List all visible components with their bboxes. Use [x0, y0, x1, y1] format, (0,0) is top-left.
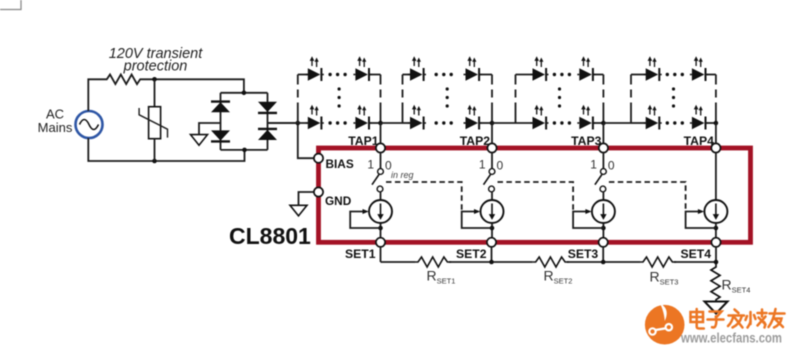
LED string 2 top first diode	[408, 56, 426, 81]
pin TAP1	[376, 143, 385, 152]
wire: bridge minus to ground	[199, 123, 221, 135]
pin TAP4	[711, 143, 720, 152]
LED string 3 top first diode	[531, 56, 549, 81]
LED string 2 top second diode	[464, 56, 482, 81]
LED string 3 top second diode	[577, 56, 595, 81]
LED string 4 bottom second diode	[690, 105, 708, 130]
wire: TAP1 to switch	[380, 153, 382, 169]
feedback loop 4	[686, 212, 716, 229]
svg-text:0: 0	[608, 159, 615, 173]
wire: segment 4 bottom rail lead-in	[631, 122, 647, 124]
AC source V1	[76, 111, 103, 138]
diode D1 (left top)	[211, 100, 230, 102]
svg-text:1: 1	[479, 158, 486, 172]
wire: set rail segment 4	[567, 261, 603, 263]
current source I3	[592, 200, 615, 223]
diode D3 (right top)	[258, 102, 277, 112]
watermark text: shao	[746, 310, 767, 328]
LED string 4 top first diode	[644, 56, 662, 81]
watermark text: zi	[708, 312, 724, 328]
svg-text:www.elecfans.com: www.elecfans.com	[680, 331, 782, 346]
feedback loop 2	[462, 212, 492, 229]
ellipsis dots vertical segment 2	[446, 87, 449, 107]
resistor R_SET3	[640, 257, 676, 267]
wire: TAP2 to switch	[491, 153, 493, 169]
LED string 2 bottom second diode	[464, 105, 482, 130]
dashed control link 3-4	[609, 182, 686, 210]
pin SET3	[599, 238, 608, 247]
wire: set rail segment 3	[492, 261, 533, 263]
wire: current source 1 to SET1	[380, 223, 382, 238]
LED string 1 bottom second diode	[353, 105, 371, 130]
ellipsis dots vertical segment 4	[672, 87, 675, 107]
LED string 4 top second diode	[690, 56, 708, 81]
ellipsis dots top row segment 2	[435, 73, 453, 76]
wire: link from TAP1 column to segment 2	[381, 122, 403, 124]
bridge rectifier BR1	[211, 91, 277, 153]
node: set rail junction x=716.0	[714, 260, 719, 265]
wire: segment 4 bottom rail end	[706, 122, 716, 124]
svg-text:SET1: SET1	[345, 247, 376, 261]
wire: switch to current source 1	[380, 192, 382, 200]
wire: GND lead	[299, 192, 315, 205]
wire: current source 3 to SET3	[602, 223, 604, 238]
svg-text:SET4: SET4	[681, 247, 712, 261]
wire: segment 3 top rail end	[593, 74, 603, 76]
wire: AC top rail	[88, 79, 104, 111]
watermark text: fa	[728, 310, 744, 328]
svg-text:1: 1	[367, 158, 374, 172]
LED string 1 bottom first diode	[306, 105, 324, 130]
node: segment 3 tap junction	[601, 121, 606, 126]
varistor RV1	[139, 79, 167, 161]
ellipsis dots vertical segment 1	[338, 87, 341, 107]
wire: link from TAP3 column to segment 4	[603, 122, 631, 124]
wire: segment 3 riser (dashed)	[515, 75, 517, 124]
node: feedback junction 2	[490, 226, 495, 231]
wire: bridge output to LED string	[268, 122, 301, 124]
pin SET4	[711, 238, 720, 247]
switch S2	[484, 169, 495, 192]
svg-text:CL8801: CL8801	[229, 223, 311, 249]
wire: segment 2 tap drop (dashed)	[491, 75, 493, 124]
node: varistor tap	[152, 77, 157, 82]
wire: switch to current source 2	[491, 192, 493, 200]
wire: current source 4 to SET4	[715, 223, 717, 238]
ellipsis dots bottom row segment 4	[666, 121, 684, 124]
wire: segment 2 bottom rail lead-in	[403, 122, 412, 124]
ellipsis dots top row segment 1	[328, 73, 346, 76]
wire: SET1 pin drop	[380, 247, 382, 262]
node: varistor bottom	[152, 159, 157, 164]
wire: BIAS feed	[298, 123, 314, 158]
current source I1	[369, 200, 392, 223]
pin TAP3	[599, 143, 608, 152]
pin SET2	[487, 238, 496, 247]
svg-text:protection: protection	[123, 59, 188, 75]
wire: TAP4 pin drop	[715, 123, 717, 143]
node: bridge bottom	[242, 148, 247, 153]
ground (R_SET4)	[705, 302, 728, 314]
wire: segment 4 top rail end	[706, 74, 716, 76]
node: segment 2 tap junction	[490, 121, 495, 126]
resistor R_SET1	[415, 257, 451, 267]
wire: segment 2 top rail end	[480, 74, 493, 76]
dashed control link 2-3	[498, 182, 574, 210]
svg-text:SET2: SET2	[456, 247, 487, 261]
ellipsis dots vertical segment 3	[558, 87, 561, 107]
ground (bridge)	[191, 135, 208, 146]
LED string 2 bottom first diode	[408, 105, 426, 130]
resistor R_SET2	[533, 257, 569, 267]
LED string 3 bottom first diode	[531, 105, 549, 130]
feedback loop 3	[573, 212, 603, 229]
wire: segment 3 top rail	[516, 74, 534, 76]
wire: current source 2 to SET2	[491, 223, 493, 238]
wire: segment 3 bottom rail lead-in	[516, 122, 534, 124]
wire: set rail segment 5	[603, 261, 640, 263]
pin GND	[314, 187, 323, 196]
ellipsis dots bottom row segment 3	[553, 121, 571, 124]
wire: TAP1 pin drop	[380, 123, 382, 143]
ground (GND pin)	[290, 205, 307, 216]
node: bridge top	[242, 91, 247, 96]
wire: set rail segment 1	[381, 261, 416, 263]
bridge outline wires	[221, 92, 268, 94]
wire: TAP4 to current source 4	[715, 153, 717, 200]
wire: SET2 pin drop	[491, 247, 493, 262]
current source I2	[481, 200, 504, 223]
wire: segment 1 top rail end	[369, 74, 380, 76]
wire: top rail to bridge	[143, 79, 244, 93]
wire: segment 2 top rail	[403, 74, 412, 76]
pin BIAS	[314, 154, 323, 163]
wire: set rail segment 6	[674, 261, 716, 263]
svg-text:0: 0	[497, 159, 504, 173]
current source I4	[704, 200, 727, 223]
decorative corner box placeholder	[0, 0, 21, 10]
svg-text:TAP1: TAP1	[348, 134, 378, 148]
diode D4 (right bottom)	[258, 128, 277, 130]
svg-text:TAP4: TAP4	[684, 134, 714, 148]
pin SET1	[376, 238, 385, 247]
wire: segment 3 bottom rail end	[593, 122, 603, 124]
svg-text:Mains: Mains	[38, 120, 73, 135]
LED string 4 bottom first diode	[644, 105, 662, 130]
pin TAP2	[487, 143, 496, 152]
LED string 3 bottom second diode	[577, 105, 595, 130]
wire: segment 4 top rail	[631, 74, 647, 76]
CL8801 IC body	[319, 148, 751, 242]
ellipsis dots bottom row segment 1	[328, 121, 346, 124]
ellipsis dots top row segment 4	[666, 73, 684, 76]
wire: segment 4 tap drop (dashed)	[715, 75, 717, 124]
dashed control link 1-2	[386, 182, 462, 210]
wire: segment 1 tap drop (dashed)	[380, 75, 382, 124]
wire: segment 2 riser (dashed)	[402, 75, 404, 124]
wire: SET3 pin drop	[602, 247, 604, 262]
node: segment 4 tap junction	[714, 121, 719, 126]
wire: TAP3 pin drop	[602, 123, 604, 143]
ellipsis dots top row segment 3	[553, 73, 571, 76]
watermark text: dian	[691, 309, 704, 329]
svg-text:1: 1	[590, 158, 597, 172]
svg-text:TAP3: TAP3	[571, 134, 601, 148]
wire: segment 4 riser (dashed)	[630, 75, 632, 124]
svg-text:in reg: in reg	[391, 170, 414, 180]
wire: segment 1 top rail	[298, 74, 309, 76]
node: segment 1 tap junction	[378, 121, 383, 126]
wire: switch to current source 3	[602, 192, 604, 200]
wire: TAP2 pin drop	[491, 123, 493, 143]
wire: SET4 pin drop	[715, 247, 717, 262]
svg-text:SET3: SET3	[568, 247, 599, 261]
node: feedback junction 3	[601, 226, 606, 231]
resistor R_SET4	[711, 262, 720, 303]
ellipsis dots bottom row segment 2	[435, 121, 453, 124]
wire: segment 2 bottom rail end	[480, 122, 493, 124]
svg-text:TAP2: TAP2	[460, 134, 490, 148]
node: set rail junction x=603.2	[601, 260, 606, 265]
wire: TAP3 to switch	[602, 153, 604, 169]
wire: segment 1 bottom rail lead-in	[268, 122, 309, 124]
node: feedback junction 1	[378, 226, 383, 231]
fusible resistor F1	[104, 75, 143, 85]
watermark logo disc	[645, 304, 685, 345]
switch S3	[595, 169, 606, 192]
watermark text: you	[769, 309, 785, 328]
diode D2 (left bottom)	[211, 130, 230, 140]
svg-text:BIAS: BIAS	[326, 157, 354, 171]
wire: segment 1 bottom rail end	[369, 122, 380, 124]
wire: set rail segment 2	[449, 261, 492, 263]
wire: AC bottom rail	[88, 138, 244, 161]
switch S1	[372, 169, 383, 192]
node: feedback junction 4	[714, 226, 719, 231]
node: set rail junction x=491.5	[489, 260, 494, 265]
feedback loop 1	[350, 212, 380, 229]
wire: segment 1 riser (dashed)	[297, 75, 299, 124]
LED string 1 top first diode	[306, 56, 324, 81]
LED string 1 top second diode	[353, 56, 371, 81]
node: LED line / BIAS tap	[296, 121, 301, 126]
wire: link from TAP2 column to segment 3	[492, 122, 516, 124]
wire: segment 3 tap drop (dashed)	[602, 75, 604, 124]
svg-text:GND: GND	[325, 194, 352, 208]
